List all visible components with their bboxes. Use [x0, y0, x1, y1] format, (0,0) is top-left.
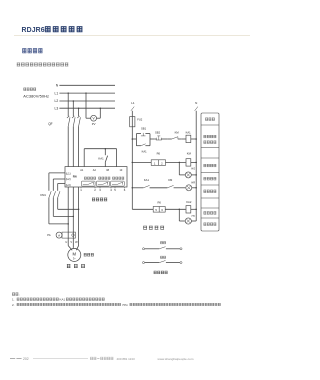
contactor coil KM — [166, 151, 197, 166]
svg-text:202: 202 — [23, 357, 29, 361]
svg-text:L1: L1 — [131, 101, 135, 105]
svg-text:KM: KM — [168, 178, 173, 182]
svg-text:R6: R6 — [73, 175, 77, 179]
svg-text:U: U — [65, 240, 67, 244]
page title RDJR6 series soft starter — [22, 27, 83, 34]
svg-text:(L2): (L2) — [66, 177, 71, 181]
svg-text:L1: L1 — [55, 91, 59, 95]
fuse FU2 — [130, 111, 143, 127]
label 电动机 — [84, 253, 94, 256]
svg-text:1: 1 — [80, 188, 82, 192]
bypass taps to KM1 — [49, 173, 65, 191]
wire output W — [78, 187, 80, 246]
label 电源输入 AC380V/50Hz — [23, 88, 49, 99]
svg-text:KM1: KM1 — [40, 193, 46, 197]
voltmeter PV — [91, 115, 97, 126]
svg-text:KA1: KA1 — [142, 150, 148, 154]
input terminals (L1)(L2)(L3) — [66, 171, 71, 187]
wire N rail — [195, 111, 197, 221]
wire L2 drop to QF — [72, 101, 74, 116]
soft starter terminals 1 2 box — [132, 151, 165, 165]
svg-text:A: A — [58, 233, 60, 237]
ammeter PA — [47, 232, 62, 238]
svg-text:www.shanghaipeople.com: www.shanghaipeople.com — [158, 357, 194, 361]
svg-text:SB1: SB1 — [141, 126, 147, 130]
svg-text:08: 08 — [106, 169, 109, 172]
stop button SB2 (NC) — [154, 131, 168, 140]
svg-text:(L1): (L1) — [66, 171, 71, 175]
svg-text:KA1: KA1 — [98, 157, 104, 161]
svg-text:KM: KM — [175, 131, 180, 135]
start button SB1 with self-hold KA1 — [132, 126, 154, 153]
node N control tap — [195, 101, 198, 111]
indicator lamp HY (fault) — [179, 209, 196, 224]
svg-text:3~: 3~ — [73, 256, 76, 260]
svg-text:V: V — [93, 117, 96, 121]
motor M — [68, 248, 81, 261]
wire output U — [67, 187, 69, 246]
svg-text:2: 2 — [161, 161, 163, 165]
bypass contactor KM1 — [40, 191, 60, 197]
svg-text:7Pin: 7Pin — [122, 303, 128, 307]
wire left rail — [132, 127, 134, 210]
junction dots phase taps — [67, 92, 79, 109]
caption 控制回路 — [143, 226, 164, 229]
svg-text:M: M — [73, 252, 77, 257]
svg-text:PV: PV — [92, 122, 96, 126]
node N — [56, 84, 115, 88]
terminal numbers 7 8 9 10 — [80, 169, 123, 172]
soft starter R6 box — [65, 167, 127, 187]
svg-text:R6: R6 — [157, 201, 161, 205]
svg-text:2: 2 — [94, 188, 96, 192]
svg-text:N: N — [195, 101, 197, 105]
svg-text:SB2: SB2 — [155, 131, 161, 135]
section heading 应用图集 — [22, 49, 42, 53]
svg-text::: : — [19, 293, 20, 297]
function legend table — [201, 113, 219, 231]
svg-text:L3: L3 — [55, 106, 59, 110]
svg-text:KM: KM — [187, 151, 192, 155]
svg-text:QF: QF — [48, 122, 52, 126]
svg-text:KA1: KA1 — [186, 131, 192, 135]
svg-text:2.: 2. — [12, 303, 15, 307]
node L3 — [55, 106, 115, 110]
svg-text:KA2: KA2 — [186, 200, 192, 204]
label 软起动器 — [92, 198, 107, 201]
node L1 control tap — [131, 101, 135, 111]
indicator lamp HR (stop) — [186, 182, 196, 191]
svg-text:A1: A1 — [80, 169, 84, 172]
svg-text:HY: HY — [192, 215, 196, 218]
svg-text:R6: R6 — [157, 151, 161, 155]
relay contact KA1 — [132, 178, 167, 188]
contactor contact KM — [167, 178, 185, 188]
relay coil KA2 — [165, 200, 196, 213]
wire output V — [72, 187, 74, 248]
svg-text:KA1: KA1 — [144, 178, 150, 182]
relay contact KA2 (NC) — [168, 131, 181, 140]
svg-text:HG: HG — [191, 167, 195, 170]
svg-text:V: V — [70, 240, 72, 244]
svg-text:5: 5 — [114, 188, 116, 192]
relay coil KA1 — [181, 131, 196, 143]
svg-text:N: N — [56, 84, 59, 88]
header rule — [14, 34, 250, 36]
svg-text:4: 4 — [110, 188, 112, 192]
svg-text:L2: L2 — [55, 99, 59, 103]
remote start contact SM — [142, 242, 182, 250]
svg-text:FU2: FU2 — [137, 118, 143, 122]
notes 说明 — [12, 293, 221, 307]
bottom control terminals 1-6 — [80, 187, 126, 192]
subtitle 常用(一拖一)旁路控制图 — [17, 63, 69, 66]
indicator lamp HG (run) — [179, 162, 196, 178]
current transformer TA — [62, 232, 75, 238]
wire L3 drop to QF — [78, 108, 80, 116]
KM1 wires rejoin outputs — [49, 198, 79, 225]
svg-text:PA: PA — [47, 233, 51, 237]
relay output labels 可编程出/运行输出/故障输出 — [84, 177, 124, 179]
soft starter terminals 5 6 box — [132, 201, 165, 212]
wires QF to soft starter inputs — [68, 126, 78, 166]
svg-text:6: 6 — [161, 208, 163, 212]
relay contact KA1 bridge over terminals — [84, 148, 116, 167]
svg-text:6: 6 — [124, 188, 126, 192]
svg-text:3: 3 — [99, 188, 101, 192]
caption 两线控制 — [154, 271, 168, 274]
svg-text:KA1: KA1 — [60, 298, 66, 302]
caption 主回路 — [67, 264, 85, 267]
circuit breaker QF — [48, 116, 80, 126]
svg-text:10: 10 — [120, 169, 123, 172]
node L1 — [55, 91, 115, 95]
svg-text:RDJR6: RDJR6 — [22, 27, 45, 34]
svg-text:1.: 1. — [12, 298, 15, 302]
svg-text:A2: A2 — [93, 169, 97, 172]
remote stop contact ST — [142, 256, 182, 263]
svg-text:(L3): (L3) — [66, 183, 71, 187]
svg-text:AC380V/50Hz: AC380V/50Hz — [23, 94, 49, 99]
footer page number and company line — [10, 357, 194, 361]
wire L1 drop to QF — [67, 93, 69, 116]
svg-text:400 881 1133: 400 881 1133 — [117, 357, 135, 361]
svg-text:HR: HR — [191, 182, 195, 185]
motor terminals U V W — [65, 240, 78, 244]
node L2 — [55, 99, 115, 103]
relay contact boxes (programmable / run / fault outputs) — [81, 181, 124, 186]
svg-text:W: W — [75, 240, 78, 244]
motor M leads — [68, 246, 78, 251]
svg-text:1: 1 — [154, 161, 156, 165]
voltmeter PV taps — [85, 92, 101, 118]
svg-text:5: 5 — [155, 208, 157, 212]
